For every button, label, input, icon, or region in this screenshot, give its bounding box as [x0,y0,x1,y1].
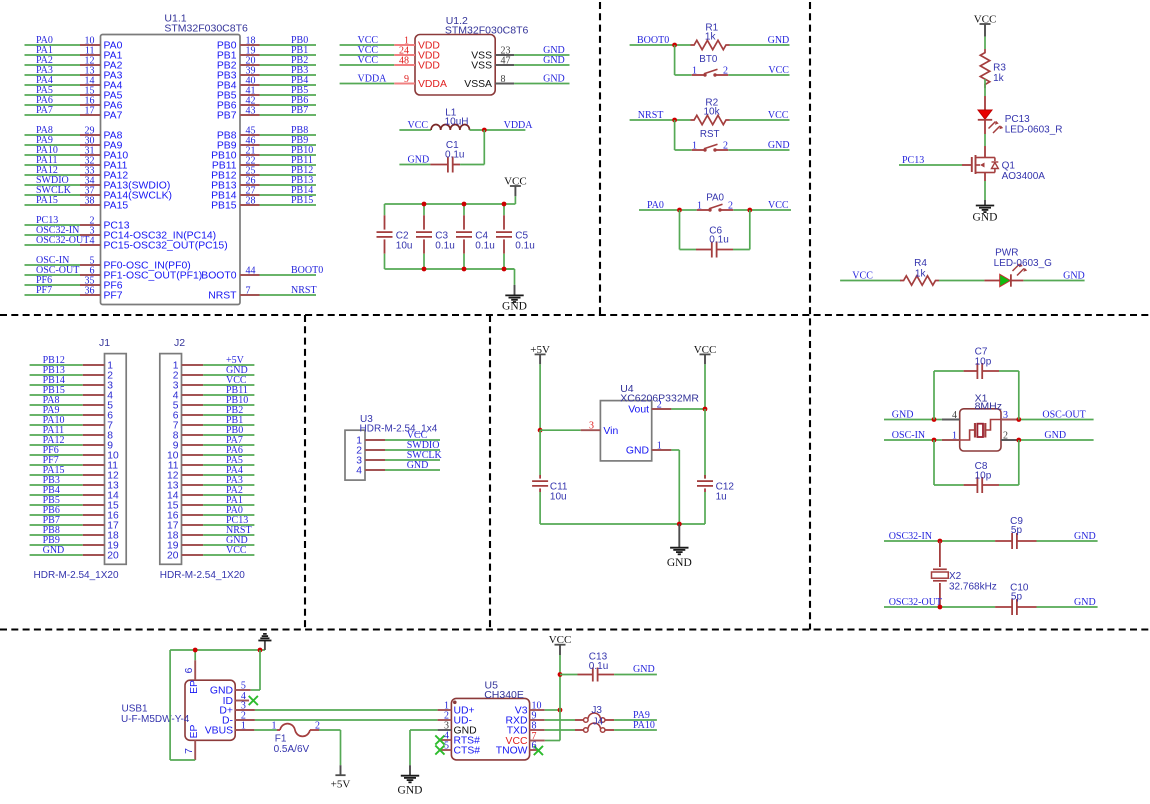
svg-text:GND: GND [543,55,565,66]
svg-text:28: 28 [246,196,256,207]
U4 pin 2 (Vout): wire and stub [628,400,705,416]
svg-text:38: 38 [85,196,95,207]
J2 pin 8: wire, stub, net PB0 [173,425,255,441]
U5 pin 6 (TNOW): stub with no-connect cross [496,741,543,757]
U5 pin 3 (GND): stub and wire to ground [410,721,477,766]
J1 pin 19: wire, stub, net PB9 [30,535,119,551]
USB1 pin 3 (D+): stub and wire to CH340E [219,701,437,717]
U1.1 pin 39 (PB3): wire, stub, net PB3 [217,65,316,82]
svg-text:CH340E: CH340E [484,689,524,701]
junction node on bottom rail at x=424 [422,267,427,272]
J1 pin 10: wire, stub, net PF6 [30,445,119,461]
connector J1 HDR-M-2.54_1X20 body [34,337,127,581]
X1 pin 3 stub (OSC-OUT) with net label and wire [1001,410,1094,422]
J2 pin 14: wire, stub, net PA2 [167,485,254,501]
svg-text:PF7: PF7 [104,291,123,302]
J2 pin 3: wire, stub, net VCC [173,375,255,391]
svg-text:PA0: PA0 [706,193,724,204]
svg-text:CTS#: CTS# [454,746,481,757]
U1.1 pin 13 (PA3): wire, stub, net PA3 [25,65,123,82]
svg-text:10uH: 10uH [445,117,469,128]
svg-text:1: 1 [657,441,662,452]
U1.1 pin 19 (PB1): wire, stub, net PB1 [217,45,316,62]
svg-text:BT0: BT0 [699,54,718,65]
U1.1 pin 42 (PB6): wire, stub, net PB6 [217,95,316,112]
resistor R4 1k on PWR LED net [840,258,984,285]
svg-text:Vin: Vin [603,426,618,437]
U1.2 pin 24 (VDD): wire, stub, net VCC [340,45,440,62]
U5 pin 1 (UD+): stub [438,701,475,717]
junction node Vout [703,407,708,412]
capacitor C7 10p (top loop) [934,347,1019,420]
U1.1 pin 20 (PB2): wire, stub, net PB2 [217,55,316,72]
wire VCC drop to top rail [504,196,515,204]
svg-text:1k: 1k [705,31,717,42]
junction node on top rail at x=424 [422,202,427,207]
svg-text:20: 20 [107,550,119,561]
svg-text:LED-0603_G: LED-0603_G [994,258,1053,269]
svg-text:VCC: VCC [974,13,997,25]
svg-text:GND: GND [667,557,692,569]
U1.1 pin 27 (PB14): wire, stub, net PB14 [211,185,316,202]
U5 pin 8 (TXD): stub and wire to J4 [507,721,575,737]
wire VDDA vertical to C1 [483,130,485,165]
junction node on top rail at x=504 [502,202,507,207]
OSC32-OUT net wire with label [884,597,995,608]
wire PC13 to Q1 gate [899,155,972,166]
svg-text:8: 8 [532,721,537,732]
svg-text:1u: 1u [716,491,727,502]
svg-text:GND: GND [1044,430,1066,441]
svg-text:PB15: PB15 [291,195,313,206]
svg-text:PB15: PB15 [211,201,237,212]
U1.1 pin 29 (PA8): wire, stub, net PA8 [25,125,123,142]
section divider: horizontal dashed line top [0,314,1150,316]
J1 pin 14: wire, stub, net PB4 [30,485,119,501]
svg-text:4: 4 [90,236,95,247]
svg-text:GND: GND [408,155,430,166]
svg-text:43: 43 [246,106,256,117]
wire USB1 shield loop (left and bottom) [170,650,265,760]
J1 pin 4: wire, stub, net PB15 [30,385,114,401]
svg-text:1: 1 [272,721,277,732]
J2 pin 20: wire, stub, net VCC [167,545,254,561]
svg-text:BOOT0: BOOT0 [201,271,236,282]
svg-text:1: 1 [952,431,957,442]
wire bottom rail of U4 section [540,523,705,525]
svg-text:VCC: VCC [358,55,379,66]
J2 pin 1: wire, stub, net +5V [173,355,255,371]
svg-text:0.1u: 0.1u [445,150,464,161]
U1.1 pin 44 (BOOT0): wire, stub, net BOOT0 [201,265,323,282]
svg-text:8: 8 [501,74,506,85]
U5 pin 9 (RXD): stub and wire to J3 [506,711,575,727]
J2 pin 4: wire, stub, net PB11 [173,385,255,401]
IC U1.1 STM32F030C8T6 body [101,13,249,305]
svg-text:OSC-IN: OSC-IN [892,430,925,441]
svg-text:+5V: +5V [331,779,351,791]
USB1 pin 4 (ID): stub with no-connect cross [223,691,258,707]
IC U4 XC6206P332MR body [600,383,699,461]
J2 pin 2: wire, stub, net GND [173,365,255,381]
capacitor C4 0.1u [456,204,495,269]
fuse F1 0.5A/6V [272,721,321,755]
connector U3 HDR-M-2.54_1x4 body [345,414,438,480]
junction node X1 right pin3 [1016,417,1021,422]
power flag VCC above R3 [974,13,997,36]
U1.1 pin 17 (PA7): wire, stub, net PA7 [25,105,123,122]
capacitor C9 5p [995,516,1098,549]
svg-text:GND: GND [768,35,790,46]
ground symbol below cap bank [502,285,527,313]
svg-text:PC15-OSC32_OUT(PC15): PC15-OSC32_OUT(PC15) [104,241,228,252]
junction node OSC32-IN [938,539,943,544]
J1 pin 2: wire, stub, net PB13 [30,365,114,381]
resistor R2 10k on NRST net [630,98,790,125]
U1.1 pin 28 (PB15): wire, stub, net PB15 [211,195,316,212]
svg-text:0.1u: 0.1u [435,240,454,251]
U1.2 pin 9 (VDDA): wire, stub, net VDDA [340,74,447,91]
svg-text:1: 1 [692,141,697,152]
crystal X1 8MHz body [960,393,1002,452]
power flag VCC above cap bank [504,175,527,196]
capacitor C12 1u [697,409,734,524]
inductor L1 10uH with VCC wire and VDDA output [399,108,533,132]
U5 pin 4 (RTS#): stub with no-connect cross [435,731,480,747]
resistor R1 1k on BOOT0 net [630,23,790,50]
connector USB1 U-F-M5DW-Y-4 body [121,680,235,740]
J2 pin 15: wire, stub, net PA1 [167,495,254,511]
junction node X1 right pin2 [1016,438,1021,443]
IC U1.2 STM32F030C8T6 power block body [415,15,529,95]
J1 pin 7: wire, stub, net PA10 [30,415,114,431]
junction node VDDA [482,128,487,133]
svg-text:VDDA: VDDA [418,79,447,90]
USB1 pin 2 (D-): stub and wire to CH340E [222,711,438,727]
svg-text:VSS: VSS [471,61,492,72]
wire VCC vertical through C13 node down to pin 7 row [545,655,560,741]
U4 pin 3 (Vin): wire and stub [540,421,618,437]
U1.2 pin 47 (VSS): wire, stub, net GND [471,55,569,72]
svg-text:NRST: NRST [208,291,237,302]
svg-text:GND: GND [43,545,65,556]
junction node Vin [538,428,543,433]
U5 pin 10 (V3): stub and wire to VCC node [515,701,560,717]
svg-text:GND: GND [626,446,649,457]
section divider: vertical dashed line x=810 [809,2,811,630]
capacitor C13 0.1u [560,652,657,682]
svg-text:PA10: PA10 [633,720,655,731]
power flag VCC above U5 [549,634,572,655]
svg-text:VCC: VCC [549,634,572,646]
J1 pin 15: wire, stub, net PB5 [30,495,119,511]
svg-text:PB7: PB7 [217,111,237,122]
J2 pin 17: wire, stub, net PC13 [167,515,254,531]
svg-text:7: 7 [246,286,251,297]
svg-text:20: 20 [167,550,179,561]
U1.1 pin 12 (PA2): wire, stub, net PA2 [25,55,123,72]
svg-text:PA7: PA7 [104,111,123,122]
svg-text:OSC32-OUT: OSC32-OUT [889,597,942,608]
svg-text:2: 2 [723,66,728,77]
section divider: vertical dashed line x=600 (top band) [599,2,601,315]
power flag VCC above Vout [694,344,717,365]
wire bottom rail corner down to GND [504,269,515,285]
USB1 pin 6 (EP) vertical stub [184,650,200,694]
svg-text:VCC: VCC [226,545,247,556]
section divider: vertical dashed line x=305 (middle band) [304,315,306,630]
J2 pin 13: wire, stub, net PA3 [167,475,254,491]
U3 pin 1: wire, stub, net VCC [356,430,440,446]
svg-text:J4: J4 [593,717,604,728]
svg-text:STM32F030C8T6: STM32F030C8T6 [164,23,248,35]
J1 pin 17: wire, stub, net PB7 [30,515,119,531]
svg-text:9: 9 [404,74,409,85]
junction node V3/VCC [558,708,563,713]
svg-text:PF7: PF7 [36,285,52,296]
U1.1 pin 25 (PB12): wire, stub, net PB12 [211,165,316,182]
svg-text:0.5A/6V: 0.5A/6V [274,744,310,755]
power flag +5V below fuse (inverted) [331,765,351,790]
svg-text:10k: 10k [704,106,721,117]
svg-text:6: 6 [184,667,195,673]
U1.1 pin 4 (PC15-OSC32_OUT(PC15)): wire, stub, net OSC32-OUT [25,235,228,252]
USB1 pin 1 (VBUS): stub and wire to fuse F1 [205,721,277,737]
OSC32-IN net wire with label [884,531,995,542]
wire bottom rail of cap bank [385,268,515,270]
U1.1 pin 45 (PB8): wire, stub, net PB8 [217,125,316,142]
U1.1 pin 11 (PA1): wire, stub, net PA1 [25,45,123,62]
svg-text:OSC32-OUT: OSC32-OUT [36,235,89,246]
svg-text:GND: GND [1074,531,1096,542]
junction node GND rail [677,522,682,527]
svg-text:2: 2 [657,400,662,411]
J1 pin 9: wire, stub, net PA12 [30,435,114,451]
wire J4 to PA10 label [614,720,657,731]
J1 pin 16: wire, stub, net PB6 [30,505,119,521]
svg-text:10u: 10u [550,491,567,502]
U1.1 pin 15 (PA5): wire, stub, net PA5 [25,85,123,102]
junction node at GND rail [258,648,263,653]
svg-text:1k: 1k [993,73,1005,84]
ground symbol below U5 [398,765,423,796]
J2 pin 10: wire, stub, net PA6 [167,445,254,461]
connector J2 HDR-M-2.54_1X20 body [160,337,245,581]
capacitor C11 10u [532,430,568,524]
U1.1 pin 30 (PA9): wire, stub, net PA9 [25,135,123,152]
J1 pin 18: wire, stub, net PB8 [30,525,119,541]
svg-text:VDD: VDD [418,61,440,72]
svg-text:0.1u: 0.1u [515,240,534,251]
junction node PA0 right [747,208,752,213]
J2 pin 9: wire, stub, net PA7 [173,435,255,451]
junction node X1 left pin1 [932,438,937,443]
U3 pin 3: wire, stub, net SWCLK [356,450,442,466]
svg-text:48: 48 [399,56,409,67]
U1.1 pin 10 (PA0): wire, stub, net PA0 [25,35,123,52]
svg-text:VCC: VCC [768,110,789,121]
svg-text:OSC32-IN: OSC32-IN [889,531,932,542]
U1.1 pin 46 (PB9): wire, stub, net PB9 [217,135,316,152]
junction node on top rail at x=464 [462,202,467,207]
wire top rail of cap bank [385,203,505,205]
J1 pin 8: wire, stub, net PA11 [30,425,114,441]
svg-text:GND: GND [398,785,423,797]
svg-text:44: 44 [246,266,256,277]
earth ground symbol above USB1 (inverted) [258,634,271,650]
svg-text:Q1: Q1 [1002,161,1016,172]
U4 pin 1 (GND): wire and stub [626,441,679,525]
junction node on bottom rail at x=464 [462,267,467,272]
svg-text:STM32F030C8T6: STM32F030C8T6 [445,25,529,37]
push button RST [692,129,790,152]
svg-text:2: 2 [1003,431,1008,442]
U1.1 pin 37 (PA14(SWCLK)): wire, stub, net SWCLK [25,185,173,202]
U5 pin 5 (CTS#): stub with no-connect cross [435,741,480,757]
U1.1 pin 18 (PB0): wire, stub, net PB0 [217,35,316,52]
svg-text:TNOW: TNOW [496,746,528,757]
svg-text:GND: GND [633,664,655,675]
IC U5 CH340E body [451,680,529,760]
wire +5V down to Vin node [539,364,541,430]
svg-text:0.1u: 0.1u [589,661,608,672]
svg-text:+5V: +5V [530,344,550,356]
junction node C13 [558,672,563,677]
svg-text:GND: GND [768,140,790,151]
wire J3 to PA9 label [614,710,657,721]
svg-text:2: 2 [728,201,733,212]
U1.1 pin 43 (PB7): wire, stub, net PB7 [217,105,316,122]
svg-text:10u: 10u [396,240,413,251]
wire LED to Q1 drain [984,134,986,146]
svg-text:5p: 5p [1011,592,1023,603]
svg-text:J3: J3 [591,705,602,716]
J2 pin 19: wire, stub, net GND [167,535,254,551]
power flag +5V [530,344,550,365]
capacitor C6 0.1u across PA0 button [680,210,750,258]
U1.1 pin 38 (PA15): wire, stub, net PA15 [25,195,129,212]
U1.1 pin 5 (PF0-OSC_IN(PF0)): wire, stub, net OSC-IN [25,255,191,272]
J1 pin 3: wire, stub, net PB14 [30,375,114,391]
J1 pin 11: wire, stub, net PF7 [30,455,119,471]
J1 pin 6: wire, stub, net PA9 [30,405,114,421]
wire PWR LED to GND label [1023,270,1084,281]
svg-text:VCC: VCC [768,65,789,76]
svg-text:PA15: PA15 [36,195,58,206]
svg-text:HDR-M-2.54_1X20: HDR-M-2.54_1X20 [34,570,119,581]
junction node NRST [672,118,677,123]
J2 pin 5: wire, stub, net PB10 [173,395,255,411]
svg-text:8MHz: 8MHz [975,400,1002,412]
J2 pin 16: wire, stub, net PA0 [167,505,254,521]
svg-text:GND: GND [973,212,998,224]
svg-text:BOOT0: BOOT0 [291,265,323,276]
svg-text:1: 1 [697,201,702,212]
svg-text:1k: 1k [915,268,927,279]
svg-text:GND: GND [1074,597,1096,608]
svg-text:1: 1 [692,66,697,77]
X1 pin 2 stub (GND) with net label and wire [1001,430,1094,442]
svg-text:Vout: Vout [628,405,649,416]
USB1 pin 5 (GND): stub and wire up to rail [210,650,260,697]
U1.1 pin 36 (PF7): wire, stub, net PF7 [25,285,123,302]
svg-text:5: 5 [444,741,449,752]
svg-text:5p: 5p [1011,525,1023,536]
wire Q1 source to GND [984,181,986,200]
LED PC13 LED-0603_R (red, pointing down) [978,96,1063,135]
svg-text:4: 4 [356,465,362,476]
svg-text:47: 47 [501,56,511,67]
capacitor C1 0.1u with GND wire [399,140,484,173]
svg-text:PC13: PC13 [1005,114,1030,125]
U1.1 pin 22 (PB11): wire, stub, net PB11 [212,155,316,172]
U1.1 pin 33 (PA12): wire, stub, net PA12 [25,165,129,182]
svg-text:EP: EP [189,725,200,739]
junction node PA0 left [677,208,682,213]
J1 pin 20: wire, stub, net GND [30,545,119,561]
X1 pin 1 stub (OSC-IN) with net label and wire [884,430,960,442]
svg-text:J2: J2 [174,337,185,349]
svg-text:0.1u: 0.1u [475,240,494,251]
svg-text:TXD: TXD [507,726,528,737]
capacitor C8 10p (bottom loop) [934,440,1019,493]
wire F1 to +5V flag [319,730,341,765]
U1.1 pin 32 (PA11): wire, stub, net PA11 [25,155,128,172]
U1.2 pin 48 (VDD): wire, stub, net VCC [340,55,440,72]
wire R3 to LED PC13 [984,79,986,96]
wire NRST branch down to RST [675,120,692,150]
svg-text:7: 7 [184,748,195,754]
J1 pin 1: wire, stub, net PB12 [30,355,114,371]
svg-text:F1: F1 [275,734,287,745]
svg-text:1: 1 [241,721,246,732]
U5 pin 7 (VCC): stub [506,731,545,747]
svg-text:3: 3 [589,421,594,432]
svg-text:RST: RST [700,129,720,140]
U1.2 pin 1 (VDD): wire, stub, net VCC [340,35,440,52]
U1.1 pin 16 (PA6): wire, stub, net PA6 [25,95,123,112]
junction node at USB1 pin 6 top [193,648,198,653]
J2 pin 12: wire, stub, net PA4 [167,465,254,481]
U1.1 pin 2 (PC13): wire, stub, net PC13 [25,215,130,232]
svg-text:GND: GND [892,410,914,421]
jumper J4 on TXD/PA10 net [575,717,614,733]
svg-text:GND: GND [543,74,565,85]
LED PWR LED-0603_G (green, pointing right) [984,248,1052,287]
capacitor C3 0.1u [416,204,455,269]
svg-text:GND: GND [1063,270,1085,281]
svg-text:PB7: PB7 [291,105,308,116]
USB1 pin 7 (EP) vertical stub [184,725,200,760]
J2 pin 6: wire, stub, net PB2 [173,405,255,421]
capacitor C5 0.1u [496,204,535,269]
X1 pin 4 stub (GND) with net label and wire [884,410,960,422]
U1.1 pin 6 (PF1-OSC_OUT(PF1)): wire, stub, net OSC-OUT [25,265,203,282]
svg-text:5: 5 [241,681,246,692]
push button BT0 [692,54,790,77]
svg-text:OSC-OUT: OSC-OUT [1042,410,1085,421]
capacitor C2 10u [377,204,413,269]
U1.1 pin 26 (PB13): wire, stub, net PB13 [211,175,316,192]
ground symbol below Q1 [973,200,998,224]
U1.1 pin 34 (PA13(SWDIO)): wire, stub, net SWDIO [25,175,171,192]
U1.1 pin 14 (PA4): wire, stub, net PA4 [25,75,123,92]
U1.1 pin 3 (PC14-OSC32_IN(PC14)): wire, stub, net OSC32-IN [25,225,217,242]
svg-text:GND: GND [407,460,429,471]
svg-text:PA7: PA7 [36,105,53,116]
svg-text:32.768kHz: 32.768kHz [949,581,997,592]
junction node on bottom rail at x=504 [502,267,507,272]
